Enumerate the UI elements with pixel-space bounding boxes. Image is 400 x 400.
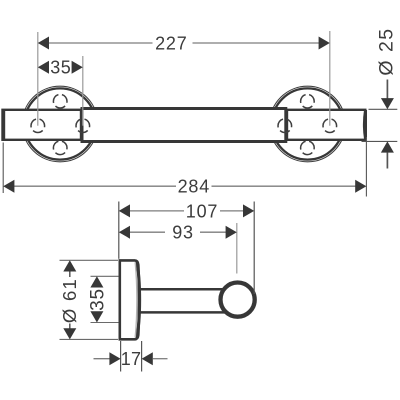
right flange inner circle xyxy=(272,88,343,159)
dim 284 right arrow xyxy=(355,180,366,193)
dim 284 line xyxy=(14,185,176,187)
extension line 35b bottom xyxy=(91,322,119,324)
bar middle section xyxy=(82,109,286,142)
right flange screw hole W xyxy=(278,119,292,133)
bar right end cap xyxy=(363,110,367,139)
left flange screw hole S xyxy=(53,141,67,155)
extension line right flange E hole xyxy=(329,31,331,126)
dim 227 right arrow xyxy=(319,37,330,50)
dim 107 right arrow xyxy=(243,204,254,217)
dim 107 line xyxy=(130,210,185,212)
svg-text:107: 107 xyxy=(186,201,218,221)
bar end circle xyxy=(221,283,255,317)
extension line 17 right xyxy=(141,341,143,372)
extension line diameter61 top xyxy=(60,259,119,261)
bar left end cap xyxy=(2,110,5,141)
svg-text:Ø 25: Ø 25 xyxy=(375,27,397,75)
bar right end section xyxy=(287,110,365,140)
left flange inner circle xyxy=(24,88,95,159)
extension line 93 right xyxy=(236,223,238,274)
svg-text:35: 35 xyxy=(50,58,71,78)
dim 17 left line xyxy=(94,358,110,360)
dim 17 left arrow xyxy=(109,352,120,365)
extension line 284 left xyxy=(2,143,4,194)
flange side view body xyxy=(120,260,139,339)
extension line diameter61 bottom xyxy=(60,338,119,340)
dim diameter 61 down arrow xyxy=(63,328,76,339)
dim 35b down arrow xyxy=(90,311,103,322)
dim 227 left arrow xyxy=(38,37,49,50)
dim diameter 25 line lower xyxy=(386,152,388,168)
dim 93 right arrow xyxy=(226,226,237,239)
flange cover outer edge xyxy=(137,262,140,338)
dim 227 line xyxy=(49,42,153,44)
right flange outer circle xyxy=(270,86,346,162)
left flange screw hole N xyxy=(53,94,67,108)
extension line bar top right xyxy=(369,108,398,110)
left flange outer circle xyxy=(22,86,98,162)
dim 107 left arrow xyxy=(119,204,130,217)
extension line bar bottom right xyxy=(362,140,398,142)
svg-text:35: 35 xyxy=(87,288,108,311)
svg-text:17: 17 xyxy=(121,349,142,369)
dim 35 top right arrow xyxy=(72,61,83,74)
dim 35b up arrow xyxy=(90,276,103,287)
right flange screw hole S xyxy=(301,141,315,155)
extension line 284 right xyxy=(365,137,367,197)
dim diameter 61 line lower xyxy=(69,324,71,330)
bar side view top line xyxy=(140,288,227,291)
extension line 35b top xyxy=(91,275,119,277)
dim diameter 25 down arrow xyxy=(381,98,394,109)
extension line left hole xyxy=(37,32,39,126)
svg-text:227: 227 xyxy=(155,33,187,53)
dim diameter 61 line upper xyxy=(69,271,71,277)
right flange screw hole N xyxy=(301,94,315,108)
extension line 17 left xyxy=(120,341,122,372)
dim diameter 25 line upper xyxy=(386,80,388,99)
bar left end section xyxy=(3,110,82,140)
dim 93 left arrow xyxy=(119,226,130,239)
dim 17 right arrow xyxy=(142,352,153,365)
dim 17 right line xyxy=(153,358,168,360)
extension line bottom view left xyxy=(118,202,120,259)
flange cover seam xyxy=(135,262,137,337)
bar side view bottom line xyxy=(140,311,227,314)
extension line 107 right xyxy=(253,202,255,295)
extension line left flange E hole xyxy=(82,56,84,126)
left flange screw hole E xyxy=(76,119,90,133)
svg-text:284: 284 xyxy=(178,177,210,197)
dim diameter 61 up arrow xyxy=(63,260,76,271)
dim diameter 25 up arrow xyxy=(381,141,394,152)
svg-text:93: 93 xyxy=(172,223,194,243)
dim 35 top left arrow xyxy=(38,61,49,74)
dim 284 left arrow xyxy=(3,180,14,193)
right flange screw hole E xyxy=(323,119,337,133)
dim 93 line xyxy=(130,231,166,233)
left flange screw hole W xyxy=(31,119,45,133)
svg-text:Ø 61: Ø 61 xyxy=(59,278,80,323)
